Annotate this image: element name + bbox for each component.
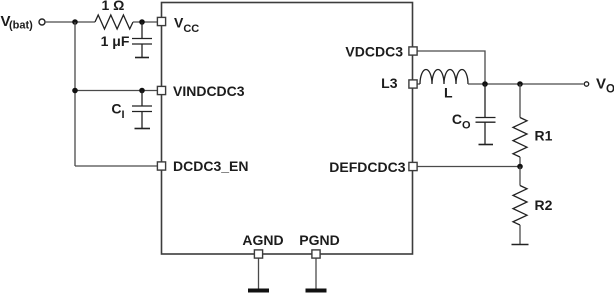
ground PGND [306,289,327,293]
inductor L [420,70,468,85]
capacitor CO [476,84,496,145]
svg-text:VCC: VCC [174,15,199,36]
wire VDCDC3 to inductor node [417,51,485,84]
ground R2 termination [512,244,529,246]
pin L3 square [409,80,417,88]
wire left rail vertical [74,22,76,166]
resistor R2 [513,186,527,226]
wire R2 bottom [519,225,521,245]
junction dot divider node [517,164,523,170]
node V(bat) input terminal [39,19,45,25]
pin DEFDCDC3 square [409,162,417,170]
ground AGND [248,289,269,293]
wire to VINDCDC3 pin [75,90,157,92]
pin DCDC3_EN square [157,162,165,170]
junction dot left rail VINDCDC3 [72,88,78,94]
capacitor CI [132,91,152,129]
wire R1 top [519,84,521,118]
junction dot SW node [482,81,488,87]
wire R1 bottom to divider node [519,157,521,167]
wire inductor to output node [468,83,584,85]
resistor 1 ohm [95,15,133,29]
wire DEFDCDC3 to divider node [417,166,520,168]
wire Vbat to resistor [45,21,95,23]
svg-text:V(bat): V(bat) [1,13,34,32]
svg-text:1 μF: 1 μF [101,33,130,49]
junction dot at Vbat rail [72,19,78,25]
svg-text:L: L [444,85,453,101]
junction dot output divider [517,81,523,87]
resistor R1 [513,118,527,158]
svg-text:R1: R1 [535,128,553,144]
node VO output terminal [584,82,588,86]
svg-text:PGND: PGND [299,232,339,248]
wire L3 pin stub [417,83,420,85]
wire to DCDC3_EN pin [75,165,157,167]
svg-text:VO: VO [596,76,614,96]
svg-text:VDCDC3: VDCDC3 [345,44,403,60]
pin VINDCDC3 square [157,86,165,94]
svg-text:R2: R2 [535,197,553,213]
IC U1 body [162,3,413,255]
svg-text:CO: CO [452,111,471,132]
svg-text:DEFDCDC3: DEFDCDC3 [329,159,405,175]
pin VCC square [157,17,165,25]
svg-text:VINDCDC3: VINDCDC3 [173,83,245,99]
junction dot at 1uF cap [139,19,145,25]
svg-text:DCDC3_EN: DCDC3_EN [173,158,248,174]
pin PGND square [312,250,320,258]
svg-text:1 Ω: 1 Ω [102,0,125,13]
capacitor 1uF [132,22,152,58]
wire AGND ground lead [258,258,260,289]
svg-text:CI: CI [111,101,124,122]
svg-text:AGND: AGND [242,232,283,248]
junction dot CI tap [139,88,145,94]
wire resistor to VCC pin [133,21,157,23]
wire R2 top [519,167,521,186]
pin AGND square [254,250,262,258]
wire PGND ground lead [315,258,317,289]
pin VDCDC3 square [409,47,417,55]
svg-text:L3: L3 [381,75,398,91]
